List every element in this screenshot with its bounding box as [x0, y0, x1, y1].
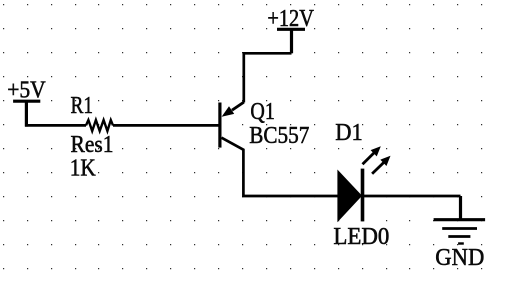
svg-text:BC557: BC557	[249, 123, 309, 149]
svg-text:GND: GND	[435, 245, 484, 271]
svg-text:1K: 1K	[70, 155, 97, 181]
svg-text:+5V: +5V	[7, 77, 46, 103]
svg-text:LED0: LED0	[333, 224, 389, 250]
svg-text:D1: D1	[335, 120, 363, 146]
svg-text:Res1: Res1	[71, 132, 114, 158]
svg-text:R1: R1	[71, 93, 94, 119]
svg-text:Q1: Q1	[250, 99, 275, 125]
svg-text:+12V: +12V	[267, 6, 314, 32]
